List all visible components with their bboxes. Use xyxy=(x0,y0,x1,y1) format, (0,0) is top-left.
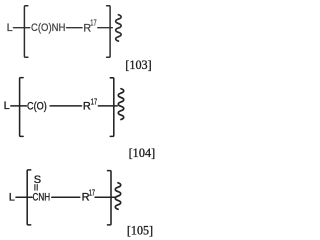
svg-text:17: 17 xyxy=(91,98,98,107)
svg-text:17: 17 xyxy=(89,188,96,197)
svg-text:17: 17 xyxy=(90,19,97,28)
wavy attachment line (105) xyxy=(115,183,120,209)
svg-text:CNH: CNH xyxy=(33,192,51,204)
left bracket (103) xyxy=(24,6,28,58)
double bond C=S (105) xyxy=(34,185,36,191)
svg-text:[103]: [103] xyxy=(125,57,151,72)
left bracket (105) xyxy=(27,170,31,225)
bond R17 to attachment (105) xyxy=(95,196,116,198)
right bracket (104) xyxy=(110,78,114,137)
svg-text:L: L xyxy=(7,22,13,34)
svg-text:L: L xyxy=(9,192,15,204)
svg-text:[104]: [104] xyxy=(129,145,156,160)
bond R17 to attachment (103) xyxy=(98,27,113,29)
bond L to C (103) xyxy=(14,27,30,29)
svg-text:R: R xyxy=(83,100,91,112)
bond NH to R17 (103) xyxy=(67,27,82,29)
wavy attachment line (104) xyxy=(118,89,123,120)
bond L to C (104) xyxy=(11,105,27,107)
bond L to C (105) xyxy=(16,196,32,198)
wavy attachment line (103) xyxy=(116,15,121,41)
left bracket (104) xyxy=(20,78,24,137)
right bracket (105) xyxy=(108,171,112,225)
svg-text:L: L xyxy=(4,100,10,112)
svg-text:[105]: [105] xyxy=(127,222,153,237)
bond C(O) to R17 (104) xyxy=(50,105,81,107)
bond NH to R17 (105) xyxy=(52,196,80,198)
bond R17 to attachment (104) xyxy=(98,105,117,107)
right bracket (103) xyxy=(107,6,111,58)
svg-text:C(O): C(O) xyxy=(27,100,47,112)
svg-text:C(O)NH: C(O)NH xyxy=(31,22,65,34)
